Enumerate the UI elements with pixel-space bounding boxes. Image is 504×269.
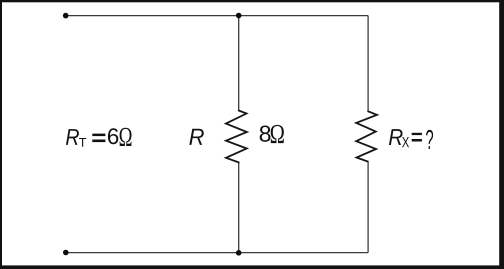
glyph equals sign (412, 133, 422, 135)
label RT = 6 ohm (total resistance) (66, 128, 132, 147)
label 8 ohm (center resistor value) (260, 125, 284, 143)
wire top rail (66, 15, 368, 17)
glyph question mark (426, 130, 433, 149)
label R (center resistor name) (189, 129, 203, 145)
glyph R italic (389, 129, 403, 145)
wire center branch top (238, 16, 240, 111)
node bottom-left (63, 250, 69, 256)
wire right branch bottom (367, 162, 369, 253)
wire center branch bottom (238, 162, 240, 252)
label RX = ? (unknown resistance) (389, 129, 433, 149)
node top-left (63, 13, 69, 19)
glyph subscript T (79, 138, 86, 147)
wire bottom rail (66, 252, 368, 254)
glyph digit 6 and ohm symbol (108, 128, 118, 144)
glyph ohm symbol (271, 125, 284, 143)
node top-center junction (236, 13, 242, 19)
wire right branch top (367, 16, 369, 112)
resistor R (center, 8 ohm) (226, 111, 247, 163)
glyph subscript X (402, 137, 409, 147)
glyph equals sign (92, 134, 105, 137)
node bottom-center junction (236, 250, 242, 256)
resistor RX (right) (356, 111, 377, 161)
glyph digit 8 (260, 126, 271, 142)
glyph R italic (66, 129, 79, 145)
